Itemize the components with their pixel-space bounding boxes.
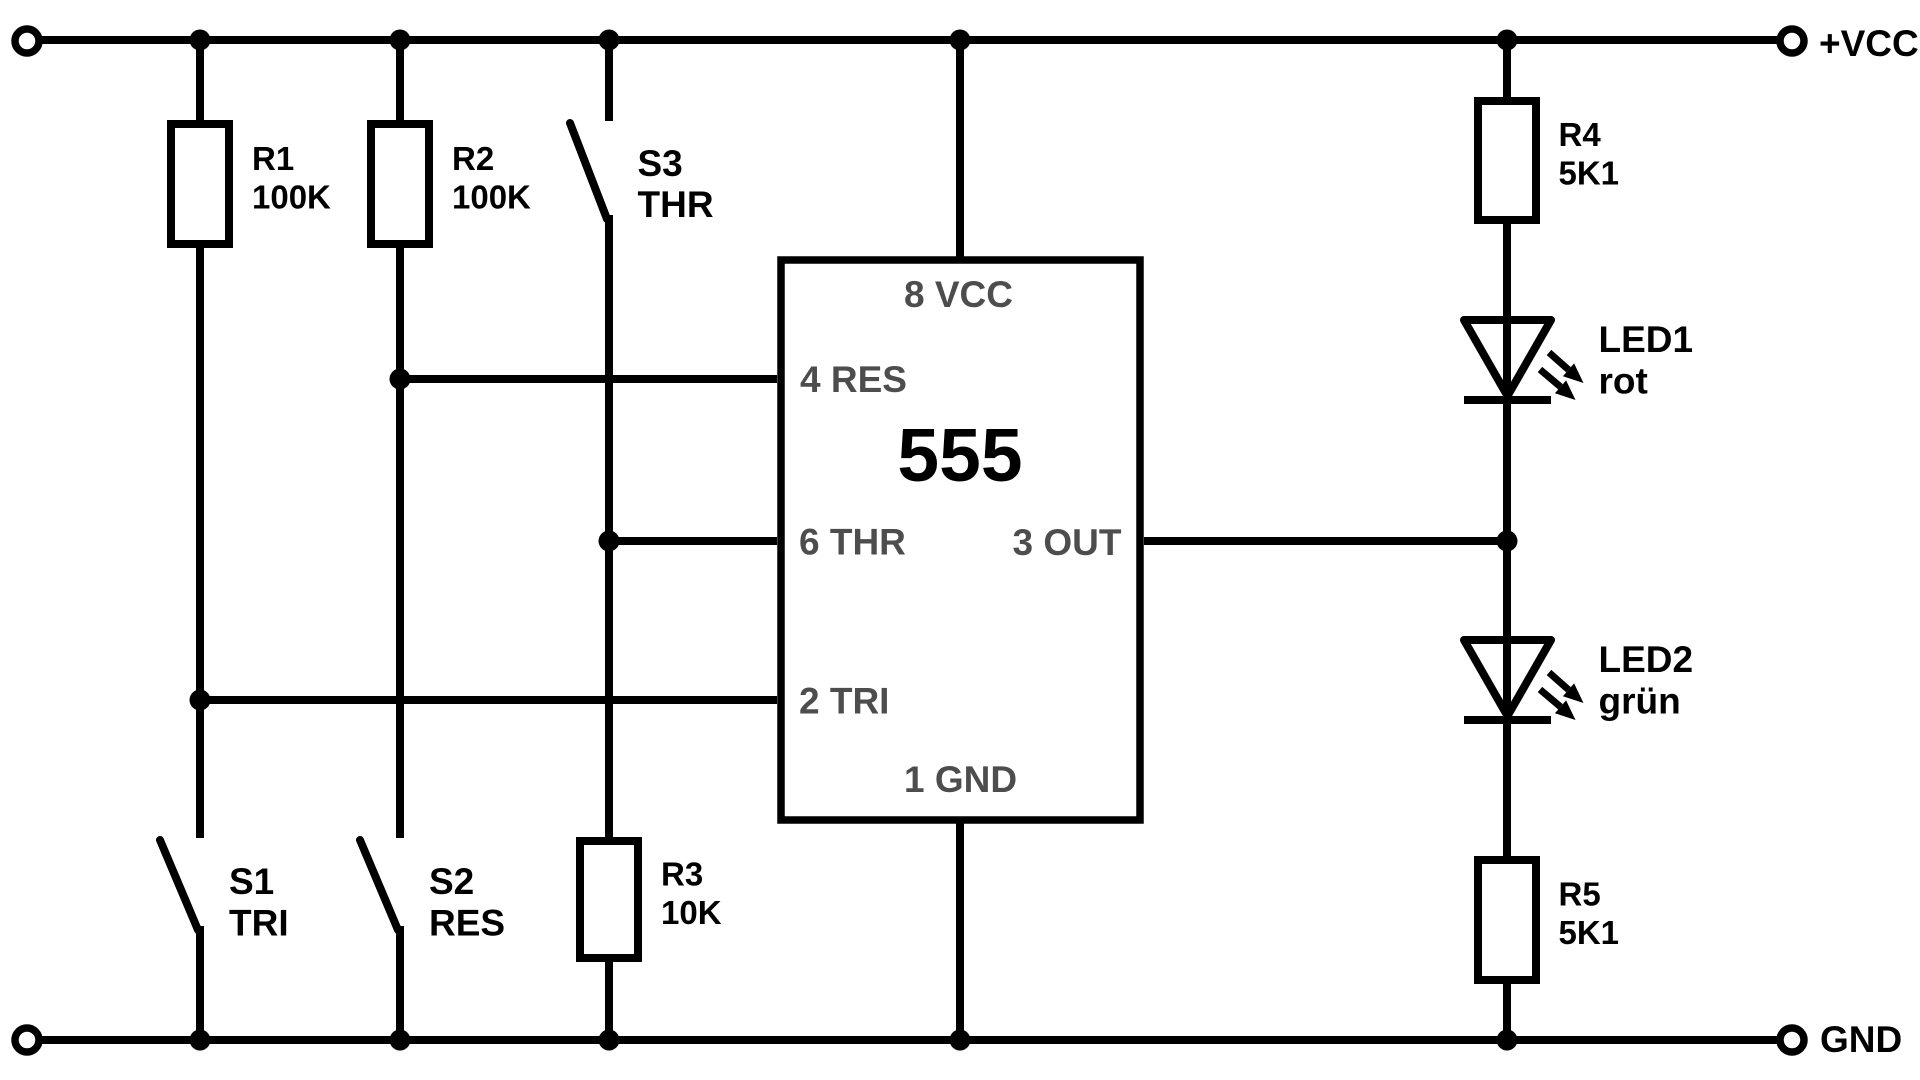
wire R2 bottom to S2 [396, 244, 404, 838]
svg-text:10K: 10K [661, 894, 722, 931]
svg-text:R1: R1 [252, 140, 294, 177]
wire pin6 THR [609, 537, 777, 545]
svg-text:TRI: TRI [229, 903, 289, 944]
resistor R2 [371, 124, 429, 244]
junction bottom rail x609 [599, 1030, 620, 1051]
svg-text:R2: R2 [452, 140, 494, 177]
junction top rail x609 [599, 30, 620, 51]
junction bottom rail x960 [950, 1030, 971, 1051]
svg-text:grün: grün [1599, 681, 1681, 722]
terminal +VCC left [15, 29, 39, 53]
wire bottom rail GND [40, 1036, 1778, 1044]
svg-text:rot: rot [1599, 361, 1648, 402]
junction bottom rail x400 [390, 1030, 411, 1051]
wire branch R4 top [1503, 40, 1511, 105]
svg-text:4 RES: 4 RES [800, 359, 907, 400]
svg-text:5K1: 5K1 [1559, 914, 1620, 951]
svg-text:6 THR: 6 THR [799, 522, 906, 563]
wire top rail +VCC [40, 36, 1778, 44]
junction OUT x1507 [1497, 531, 1518, 552]
switch S2 [360, 840, 398, 930]
LED1 arrows [1540, 353, 1584, 401]
wire pin3 OUT [1144, 537, 1507, 545]
switch S3 [570, 123, 607, 219]
wire R5 to bottom rail [1503, 980, 1511, 1040]
svg-text:S3: S3 [638, 143, 683, 184]
junction RES x400 [390, 369, 411, 390]
wire S3 to R3 [605, 215, 613, 845]
switch S1 [160, 840, 198, 930]
svg-text:555: 555 [897, 413, 1022, 497]
svg-text:LED2: LED2 [1599, 639, 1694, 680]
LED LED2 [1464, 640, 1551, 720]
resistor R4 [1478, 101, 1536, 220]
svg-text:S1: S1 [229, 861, 274, 902]
LED2 arrows [1540, 673, 1584, 721]
svg-text:S2: S2 [429, 861, 474, 902]
junction THR x609 [599, 531, 620, 552]
junction TRI x200 [190, 690, 211, 711]
svg-text:RES: RES [429, 903, 505, 944]
junction bottom rail x1507 [1497, 1030, 1518, 1051]
svg-text:R4: R4 [1559, 116, 1602, 153]
LED LED1 [1464, 320, 1551, 400]
resistor R1 [171, 124, 229, 244]
wire R4 to LED chain [1503, 220, 1511, 860]
wire R3 to bottom rail [605, 958, 613, 1040]
svg-text:3 OUT: 3 OUT [1013, 522, 1122, 563]
junction top rail x200 [190, 30, 211, 51]
resistor R5 [1478, 860, 1536, 980]
wire S1 to bottom rail [196, 926, 204, 1040]
junction top rail x960 [950, 30, 971, 51]
junction bottom rail x200 [190, 1030, 211, 1051]
junction top rail x1507 [1497, 30, 1518, 51]
svg-text:100K: 100K [452, 179, 531, 216]
terminal GND right [1780, 1028, 1804, 1052]
svg-text:1 GND: 1 GND [904, 759, 1017, 800]
svg-text:2 TRI: 2 TRI [799, 681, 889, 722]
wire pin4 RES [400, 375, 777, 383]
svg-text:8 VCC: 8 VCC [904, 274, 1013, 315]
wire pin2 TRI [200, 696, 777, 704]
svg-text:THR: THR [638, 184, 714, 225]
wire branch R1 top [196, 40, 204, 128]
wire R1 bottom to S1 [196, 244, 204, 838]
svg-text:100K: 100K [252, 179, 331, 216]
junction top rail x400 [390, 30, 411, 51]
terminal GND left [15, 1028, 39, 1052]
wire pin8 VCC [956, 40, 964, 260]
wire branch S3 top [605, 40, 613, 121]
resistor R3 [580, 841, 638, 958]
svg-text:LED1: LED1 [1599, 319, 1694, 360]
svg-text:5K1: 5K1 [1559, 155, 1620, 192]
svg-text:GND: GND [1820, 1019, 1902, 1060]
wire S2 to bottom rail [396, 926, 404, 1040]
wire branch R2 top [396, 40, 404, 128]
wire pin1 GND [956, 820, 964, 1040]
op-amp U1 555 IC body [781, 260, 1140, 820]
svg-text:R3: R3 [661, 856, 703, 893]
terminal +VCC right [1780, 29, 1804, 53]
svg-text:R5: R5 [1559, 876, 1601, 913]
svg-text:+VCC: +VCC [1819, 23, 1919, 64]
